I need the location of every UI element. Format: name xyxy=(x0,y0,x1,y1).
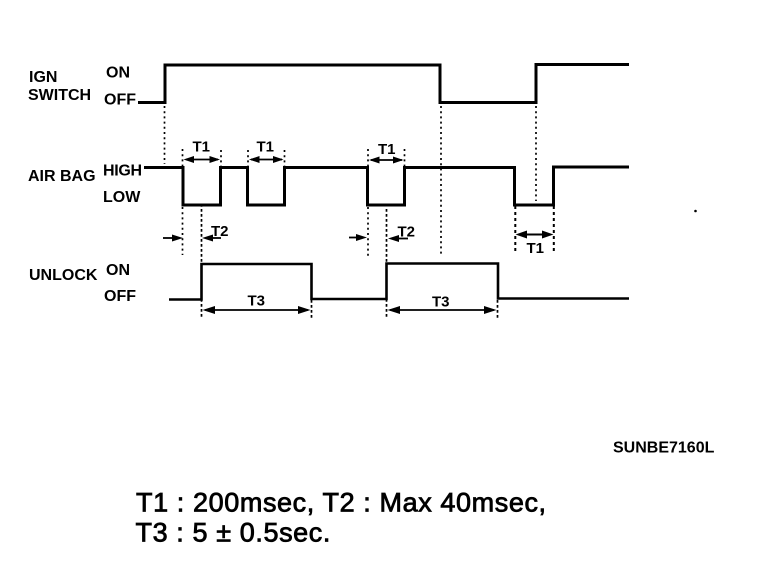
dotted line: T1 bracket 2 left xyxy=(247,150,249,166)
svg-text:IGN: IGN xyxy=(29,69,57,86)
dotted line: T1 bracket 3 right xyxy=(404,149,406,166)
dotted line: T1 bracket 4 left (below AIR BAG pulse 4) xyxy=(514,206,516,253)
T2 arrow 1 right (points left) xyxy=(202,235,221,242)
dashed line: UNLOCK fall 2 extension xyxy=(497,300,499,318)
svg-text:T3 : 5 ± 0.5sec.: T3 : 5 ± 0.5sec. xyxy=(136,518,332,548)
label IGN SWITCH xyxy=(28,69,91,104)
svg-text:ON: ON xyxy=(106,65,130,82)
svg-text:UNLOCK: UNLOCK xyxy=(29,267,98,284)
svg-text:OFF: OFF xyxy=(104,92,136,109)
svg-text:T1: T1 xyxy=(257,139,275,156)
T3 arrow 1 xyxy=(203,306,311,314)
dotted line: IGN fall (long) xyxy=(440,106,442,255)
svg-text:HIGH: HIGH xyxy=(103,163,142,180)
T3 arrow 2 xyxy=(388,306,497,314)
UNLOCK waveform xyxy=(169,264,629,300)
T2 arrow 2 left (points right) xyxy=(349,234,367,241)
svg-text:T1: T1 xyxy=(527,240,545,257)
svg-text:T3: T3 xyxy=(432,294,450,311)
svg-text:SUNBE7160L: SUNBE7160L xyxy=(613,440,715,457)
svg-text:ON: ON xyxy=(106,262,130,279)
svg-text:OFF: OFF xyxy=(104,288,136,305)
svg-text:T2: T2 xyxy=(398,224,416,241)
T2 arrow 1 left (points right) xyxy=(163,235,183,242)
T1 arrow 2 xyxy=(249,156,284,163)
svg-text:T1: T1 xyxy=(193,139,211,156)
T1 arrow 4 xyxy=(516,231,554,239)
T2 arrow 2 right (points left) xyxy=(388,235,408,242)
dotted line: IGN second rise down to AIR BAG low xyxy=(535,106,537,201)
svg-text:T1: T1 xyxy=(378,141,396,158)
svg-text:T2: T2 xyxy=(211,223,229,240)
dashed line: UNLOCK rise 2 extension xyxy=(386,209,388,318)
IGN SWITCH waveform xyxy=(138,65,629,103)
dotted line: IGN rise down to AIR BAG high xyxy=(164,106,166,164)
dotted line: T2-2 left edge extension below AIR BAG pulse 3 xyxy=(367,207,369,256)
dotted line: T2-1 left edge extension below AIR BAG pulse 1 xyxy=(182,207,184,255)
svg-text:T1 : 200msec, T2 : Max 40msec,: T1 : 200msec, T2 : Max 40msec, xyxy=(136,488,547,518)
svg-text:T3: T3 xyxy=(248,293,266,310)
dotted line: T1 bracket 4 right xyxy=(553,206,555,253)
T1 arrow 3 xyxy=(369,157,404,164)
dotted line: T1 bracket 2 right xyxy=(284,150,286,166)
dashed line: UNLOCK rise 1 extension xyxy=(201,204,203,318)
dotted line: T1 bracket 3 left xyxy=(367,149,369,166)
svg-text:SWITCH: SWITCH xyxy=(28,87,91,104)
svg-text:AIR BAG: AIR BAG xyxy=(28,168,96,185)
AIR BAG waveform xyxy=(144,167,629,205)
dotted line: T1 bracket 1 left xyxy=(182,149,184,166)
stray scan speck xyxy=(694,210,697,213)
T1 arrow 1 xyxy=(184,156,221,163)
dashed line: UNLOCK fall 1 extension xyxy=(311,300,313,318)
svg-text:LOW: LOW xyxy=(103,189,141,206)
dotted line: T1 bracket 1 right xyxy=(220,150,222,166)
